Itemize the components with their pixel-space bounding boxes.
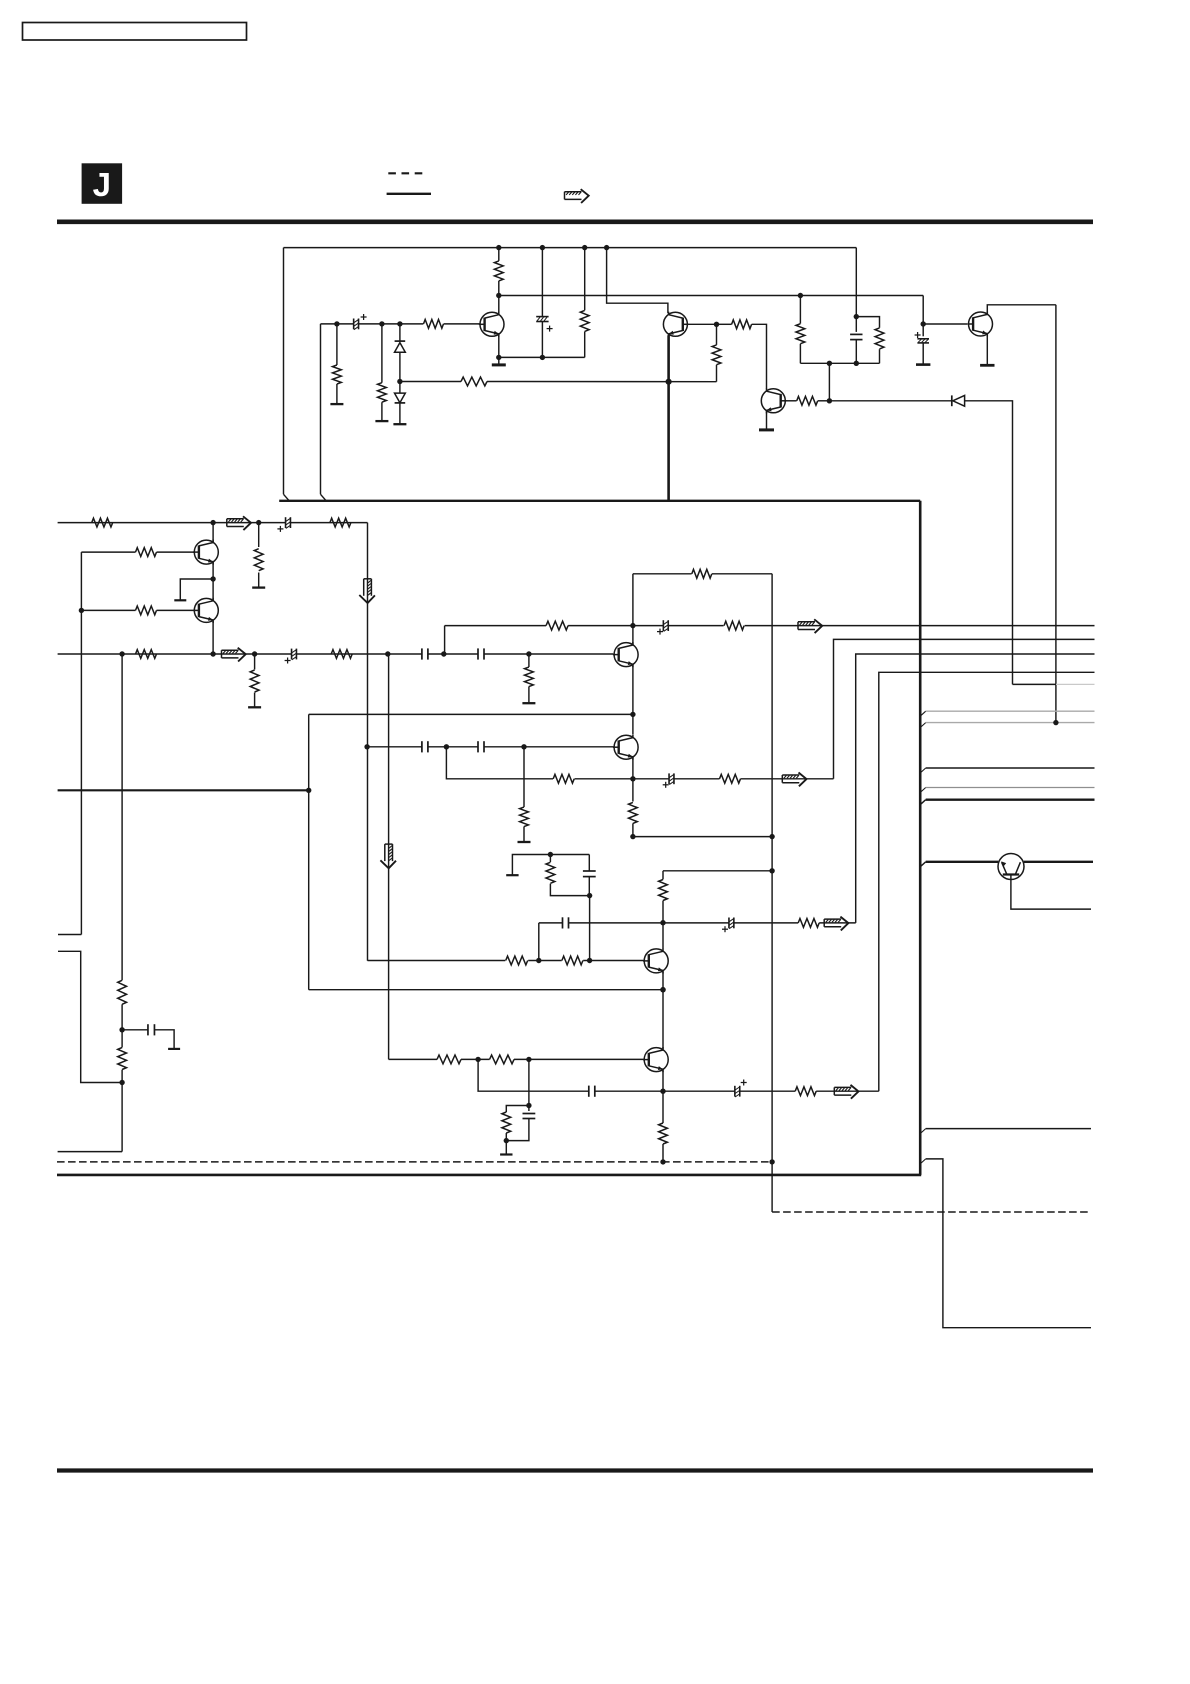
junction dot node bias — [397, 379, 402, 384]
wire y1091 rail — [478, 1059, 589, 1091]
flow arrow down x367 — [363, 579, 365, 596]
resistor R33 — [502, 1112, 511, 1133]
junction dot Q6 base node — [921, 321, 926, 326]
resistor R26 — [659, 880, 668, 901]
wire collector node feed — [499, 295, 923, 297]
resistor R13 — [712, 345, 721, 365]
inner fb box top — [633, 573, 692, 575]
wire C19 right to ground — [154, 1030, 174, 1049]
resistor R1b series — [330, 518, 351, 527]
ground bar C6 — [916, 363, 930, 366]
wire y626 rail — [445, 625, 546, 627]
wire R22 lower lead — [528, 687, 530, 704]
wire R12 left lead — [717, 323, 732, 325]
wire x539 link — [538, 923, 540, 961]
wire R7 lower lead — [336, 384, 338, 404]
junction dot — [660, 1089, 665, 1094]
bus nick y788 — [920, 788, 926, 793]
junction dot — [256, 520, 261, 525]
signal arrow y1091 — [834, 1086, 851, 1088]
wire Q7 collector — [632, 626, 634, 645]
wire Q3 emitter — [498, 335, 500, 358]
wire Rsnub lower lead — [550, 884, 589, 896]
wire input1 cont — [290, 522, 367, 524]
wire Q4 base feed from rail — [607, 248, 668, 314]
transistor Q3 — [480, 312, 504, 336]
junction dot — [79, 608, 84, 613]
resistor R34 — [659, 1123, 668, 1144]
wire R11 lower lead — [584, 332, 586, 358]
junction dot collector-bus — [1053, 720, 1058, 725]
bold emitter wire Q4 — [667, 335, 670, 501]
bus nick y862 — [920, 862, 926, 867]
wire Q6 collector drop x1056 — [1055, 305, 1057, 723]
junction dot Q4 base node — [714, 322, 719, 327]
top header rule — [57, 220, 1093, 225]
resistor R23 — [520, 807, 529, 827]
junction dot bold on y382 — [666, 379, 672, 385]
wire y1091 riser to bus — [879, 672, 1095, 1091]
resistor R2 Q1 base — [136, 548, 157, 557]
wire y654 seg3 — [484, 653, 613, 655]
wire link y626 drop — [444, 626, 446, 654]
resistor R17 on y382 — [461, 377, 487, 386]
capacitor C15 electrolytic — [728, 918, 730, 929]
bus nick y768 — [920, 768, 926, 773]
ground bar R22 — [522, 702, 535, 704]
ground bar D2 — [393, 423, 406, 425]
wire R5 lower lead — [258, 573, 260, 588]
ground bar Q3 emitter — [492, 363, 506, 366]
wire snub2 left — [506, 1106, 529, 1113]
wire Q5 base lead right — [784, 400, 796, 402]
junction dot — [630, 776, 635, 781]
wire R2 to Q1 — [157, 551, 195, 553]
junction dot on dashed bus — [660, 1159, 665, 1164]
wire y990 rail — [309, 989, 663, 991]
resistor R19 feedback — [692, 569, 712, 578]
resistor R36 — [118, 980, 127, 1004]
bold bus vertical x920 — [919, 501, 922, 1175]
bus line y768 — [926, 767, 1095, 769]
junction dot — [475, 1057, 480, 1062]
transistor Q6 — [969, 312, 993, 336]
wire Q6 collector up and over — [987, 305, 1056, 314]
resistor R21 — [724, 621, 744, 630]
bold output line y862 — [926, 861, 999, 863]
wire y923 riser to bus — [856, 654, 1095, 923]
resistor R4b series — [331, 650, 352, 659]
wire cap branch top — [855, 248, 857, 332]
wire x529 drop — [528, 1059, 530, 1111]
junction dot — [526, 651, 531, 656]
bus line y711 gray — [926, 710, 1095, 712]
junction dot — [444, 744, 449, 749]
signal arrow y779 — [782, 774, 799, 776]
capacitor C7 series — [421, 648, 423, 659]
junction dot divider — [119, 1027, 124, 1032]
wire C13 lower lead — [588, 877, 590, 896]
resistor R7 to ground — [333, 365, 342, 384]
resistor R25 — [720, 774, 741, 783]
wire R7 upper lead — [336, 324, 338, 365]
wire y747 seg2 — [428, 746, 478, 748]
ground bar Q5 emitter — [759, 428, 774, 431]
wire rail y363 resnet — [800, 362, 879, 364]
junction dot — [587, 893, 592, 898]
junction dot — [769, 868, 774, 873]
ground bar R8 — [375, 420, 388, 422]
page-break slash second vertical — [321, 494, 327, 501]
wire Rsnub upper lead — [549, 855, 551, 863]
wire Q6 base lead — [923, 323, 967, 325]
transistor Q8 — [614, 735, 638, 759]
wire R8 lower lead — [381, 402, 383, 421]
junction dot bus790 — [306, 788, 311, 793]
ground bar Q6 emitter — [980, 364, 994, 367]
wire input bus 1 — [58, 522, 286, 524]
junction dot x367 y747 — [364, 744, 369, 749]
bold bus horizontal y500 — [279, 500, 920, 502]
resistor R4 series input2 — [136, 650, 157, 659]
capacitor C11 electrolytic — [662, 620, 664, 631]
wire input2 cont — [296, 653, 422, 655]
resistor R9 series base — [424, 320, 444, 329]
wire R16 lower lead — [879, 349, 881, 363]
junction dot rail — [496, 245, 501, 250]
diode D3 pointing left — [951, 395, 953, 406]
junction dot — [854, 361, 859, 366]
junction dot — [119, 1080, 124, 1085]
wire exit y1151 — [58, 1151, 123, 1153]
transistor Q10 — [644, 1048, 668, 1072]
wire C13 upper lead — [588, 855, 590, 872]
wire C17 lower lead — [506, 1119, 529, 1141]
resistor R31 — [437, 1055, 461, 1064]
legend dashed line sample — [388, 172, 423, 174]
bus nick y800 — [920, 800, 926, 805]
junction dot — [397, 321, 402, 326]
wire Q1 base — [81, 551, 135, 553]
wire x309 vertical — [308, 714, 310, 989]
wire R10 upper lead — [498, 248, 500, 261]
ground bar R23 — [518, 841, 531, 843]
wire D1 to junction — [399, 352, 401, 381]
ground bar C19 — [168, 1048, 180, 1050]
resistor R1 series input1 — [92, 518, 113, 527]
wire x772 lower drop — [771, 1162, 773, 1212]
wire R26 top corner — [662, 871, 664, 880]
wire R8 upper lead — [381, 324, 383, 383]
wire y779 to bus riser — [834, 639, 1095, 778]
junction dot — [526, 1103, 531, 1108]
resistor R11 — [580, 310, 589, 331]
signal arrow y923 — [824, 918, 841, 920]
resistor R16 — [875, 328, 884, 349]
wire Q2 emitter — [212, 621, 214, 654]
capacitor C1b electrolytic input1 — [285, 517, 287, 528]
wire D2 lower lead — [399, 403, 401, 424]
junction dot — [210, 520, 215, 525]
resistor R15 — [796, 324, 805, 344]
diode D2 pointing down — [395, 393, 406, 403]
resistor R6 shunt — [250, 670, 259, 692]
junction dot — [379, 321, 384, 326]
wire y961 rail — [368, 960, 506, 962]
wire R36-R37 link — [121, 1004, 123, 1047]
transistor Q7 — [614, 643, 638, 667]
dashed bus y1212 — [772, 1211, 1091, 1213]
wire R6 upper lead — [254, 654, 256, 670]
section label J black square — [82, 163, 123, 204]
resistor R8 to ground — [378, 383, 387, 403]
wire R12 to Q5 collector — [752, 324, 767, 388]
snubber top rail — [512, 855, 589, 876]
wire R33 lower lead — [505, 1133, 507, 1141]
signal arrow y626 — [798, 621, 815, 623]
svg-text:J: J — [93, 166, 111, 203]
bottom footer rule — [57, 1468, 1093, 1472]
wire Q9 emitter — [662, 972, 664, 1049]
junction dot rail — [540, 245, 545, 250]
capacitor C6 electrolytic to ground — [915, 334, 921, 336]
resistor R24 — [553, 774, 574, 783]
junction dot y990 end — [660, 987, 665, 992]
junction dot y714 end — [630, 712, 635, 717]
page stub out y934 — [58, 934, 81, 936]
legend signal-flow arrow — [565, 191, 582, 193]
wire mid vertical x388 — [388, 654, 390, 1059]
wire bias feedback y382 — [400, 381, 461, 383]
transistor Q4 mirrored — [663, 312, 687, 336]
resistor R22 — [525, 667, 534, 687]
wire second vertical drop x320 — [320, 324, 322, 494]
top-left reference box — [23, 23, 247, 41]
page-break slash left edge — [284, 494, 290, 501]
bias block left edge wire — [283, 248, 285, 495]
resistor R30 — [798, 919, 819, 928]
wire Q8 emitter lower — [632, 823, 634, 836]
wire C4 lower lead — [541, 322, 543, 358]
resistor R37 — [118, 1048, 127, 1070]
signal arrow on input2 — [222, 649, 239, 651]
ground bar snubber left — [506, 874, 518, 876]
junction dot rail — [582, 245, 587, 250]
wire D2 upper lead — [399, 382, 401, 394]
wire C5 lower lead — [855, 340, 857, 364]
wire link to R16 — [856, 317, 879, 328]
capacitor C16 electrolytic — [734, 1086, 736, 1097]
wire collector feed corner down — [922, 296, 924, 337]
junction dot — [548, 852, 553, 857]
junction dot — [660, 920, 665, 925]
wire Q1-Q2 link — [212, 562, 214, 602]
capacitor C5 — [850, 333, 862, 335]
capacitor C17 snub2 — [523, 1113, 536, 1115]
junction dot — [210, 651, 215, 656]
ground bar R5 — [252, 586, 265, 588]
junction dot — [769, 834, 774, 839]
wire y714 rail — [309, 713, 633, 715]
wire R13 upper lead — [716, 324, 718, 345]
wire R23 upper lead — [523, 747, 525, 807]
capacitor C4 electrolytic vertical — [536, 316, 548, 318]
resistor R28 — [506, 956, 528, 965]
ground bar snub2 — [500, 1153, 512, 1155]
junction dot — [504, 1138, 509, 1143]
wire C19 left lead — [122, 1029, 148, 1031]
wire R11 upper lead — [584, 248, 586, 311]
wire R10 lower lead — [498, 281, 500, 312]
wire R5 upper lead — [258, 523, 260, 547]
flow arrow down x388 — [384, 844, 386, 861]
resistor R3 Q2 base — [136, 606, 157, 615]
bus line y685 from diode chain — [1013, 683, 1057, 685]
wire input bus 2 — [58, 653, 292, 655]
power rail top edge of bias block — [284, 247, 857, 249]
bus line y1129 — [920, 1129, 926, 1134]
wire R26 lower lead — [662, 901, 664, 949]
wire link 829 to diode node — [828, 363, 830, 401]
wire R3 to Q2 — [157, 609, 195, 611]
junction dot rail — [604, 245, 609, 250]
ground bar R7 — [330, 403, 343, 405]
capacitor C13 snubber — [583, 870, 596, 872]
junction dot — [587, 958, 592, 963]
resistor R27 snubber — [546, 862, 555, 883]
junction dot emitter node — [496, 355, 501, 360]
signal arrow on input1 — [227, 518, 244, 520]
resistor R29 — [562, 956, 583, 965]
junction dot collector-feed corner — [798, 293, 803, 298]
junction dot — [526, 1057, 531, 1062]
wire D1 upper lead — [399, 324, 401, 341]
open stub between Q1 Q2 — [180, 579, 213, 600]
wire Q7 emitter to y714 — [632, 665, 634, 735]
capacitor C18 series — [588, 1086, 590, 1097]
junction dot dashed end — [769, 1159, 774, 1164]
wire R13 lower lead to y382 — [716, 365, 718, 382]
wire R22 upper lead — [528, 654, 530, 667]
junction dot — [385, 651, 390, 656]
wire Q4 base lead right — [687, 323, 717, 325]
junction dot — [119, 651, 124, 656]
resistor R12 series — [732, 320, 752, 329]
junction dot — [252, 651, 257, 656]
junction dot collector node — [496, 293, 501, 298]
wire y747 seg3 — [484, 746, 614, 748]
wire R15 lower lead — [799, 344, 801, 364]
junction dot diode node — [827, 398, 832, 403]
junction dot — [441, 651, 446, 656]
wire y654 seg2 — [428, 653, 478, 655]
wire y871 link — [663, 870, 772, 872]
bold bus horizontal y1175 — [57, 1174, 921, 1177]
transistor Q1 — [194, 540, 218, 564]
wire Q1 collector — [212, 523, 214, 543]
bus stub y1159 — [920, 1159, 926, 1164]
ground bar R6 — [248, 706, 261, 708]
inner fb box right x772 — [771, 574, 773, 1162]
wire R37 lower lead — [121, 1070, 123, 1152]
diode D1 pointing up — [395, 340, 406, 342]
transistor Q11 rotated — [998, 854, 1024, 880]
wire y654 coupling — [421, 653, 423, 655]
wire Q6 emitter — [986, 334, 988, 365]
wire bus y790 semi-bold — [58, 789, 309, 791]
resistor R-Q8emitter — [629, 802, 638, 823]
junction dot — [521, 744, 526, 749]
wire diode rail y401 left — [829, 400, 951, 402]
transistor Q9 — [644, 949, 668, 973]
junction dot — [536, 958, 541, 963]
junction dot cap branch — [854, 314, 859, 319]
resistor R20 — [546, 621, 568, 630]
capacitor C10 series — [477, 741, 479, 752]
wire base rail y324 left — [321, 323, 354, 325]
capacitor C14 series — [562, 917, 564, 928]
wire R6 lower lead — [254, 693, 256, 708]
page stub in y951 — [58, 951, 122, 1082]
bus line y800 bold — [926, 799, 1095, 801]
wire R34 lower lead — [662, 1144, 664, 1162]
wire left vertical x122 — [121, 654, 123, 980]
wire Q5 emitter — [766, 412, 768, 430]
wire snub2 ground lead — [505, 1141, 507, 1155]
wire Q2 base — [81, 609, 135, 611]
resistor R32 — [490, 1055, 515, 1064]
junction dot — [630, 834, 635, 839]
capacitor C8 series — [477, 648, 479, 659]
capacitor C12 electrolytic — [668, 773, 670, 784]
wire Q10 emitter — [662, 1070, 664, 1123]
dashed bus y1162 — [57, 1161, 772, 1163]
junction dot — [660, 987, 665, 992]
resistor R14 — [797, 396, 818, 405]
wire R23 lower lead — [523, 827, 525, 843]
junction dot — [630, 623, 635, 628]
inner fb box left — [632, 574, 634, 626]
transistor Q2 — [194, 598, 218, 622]
wire Q8 emitter — [632, 757, 634, 801]
capacitor C9 series — [421, 741, 423, 752]
wire y747 coupling — [367, 746, 422, 748]
wire base rail to Q3 — [444, 323, 481, 325]
capacitor C19 series — [147, 1024, 149, 1035]
capacitor C1 electrolytic on base rail — [353, 319, 355, 330]
wire diode rail y401 right — [965, 401, 1013, 685]
wire y1059 rail — [389, 1058, 437, 1060]
wire x590 drop — [589, 896, 591, 961]
junction dot interstage — [210, 576, 215, 581]
resistor R10 collector load — [494, 261, 503, 281]
wire emitter rail y357 — [499, 356, 585, 358]
wire y837 link — [633, 836, 772, 838]
bus nick y723 — [920, 723, 926, 728]
wire y923 rail — [539, 922, 563, 924]
resistor R5 shunt — [254, 549, 263, 571]
junction dot — [334, 321, 339, 326]
wire Q11 down lead — [1011, 875, 1091, 910]
bus line y723 gray — [926, 722, 1095, 724]
wire mid vertical x367 — [367, 523, 369, 961]
wire Q3 emitter ground stub — [498, 357, 500, 364]
bus line y788 gray — [926, 787, 1095, 789]
junction dot — [827, 361, 832, 366]
wire base rail y324 mid — [359, 323, 424, 325]
legend solid line sample — [387, 193, 431, 195]
junction dot — [540, 355, 545, 360]
